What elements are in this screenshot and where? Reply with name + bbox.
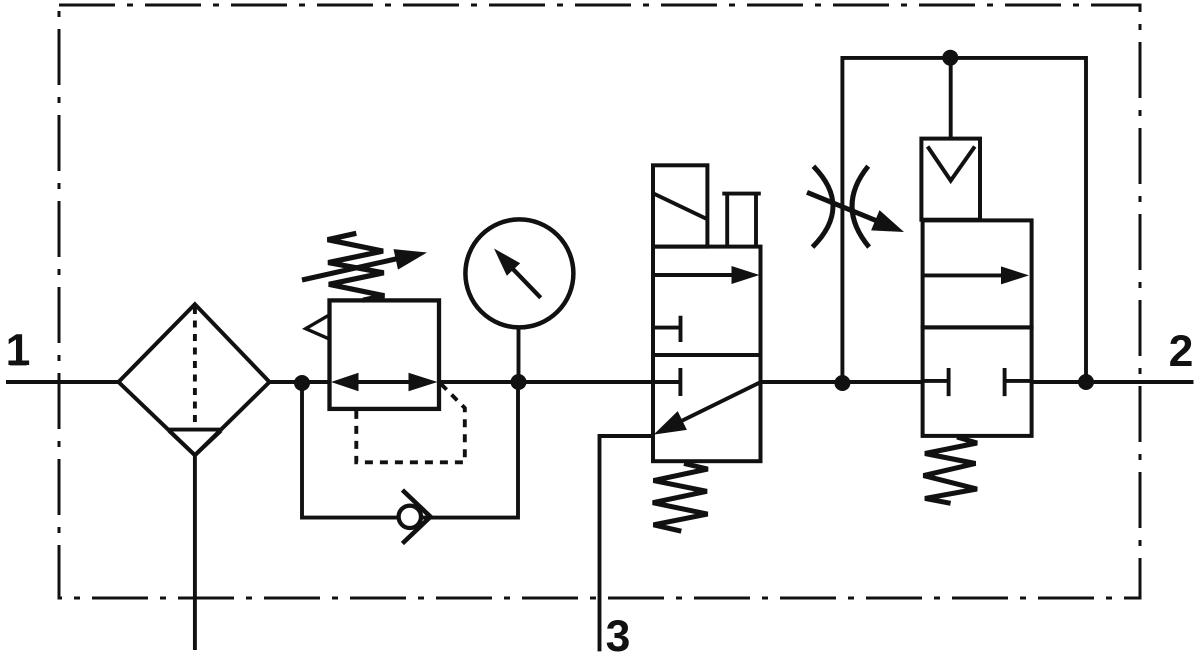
- wire: throttle branch vertical: [842, 58, 1086, 382]
- svg-text:1: 1: [6, 326, 31, 375]
- wire: regulator to valve V2: [439, 380, 653, 384]
- regulator R1 right arrowhead: [409, 373, 438, 392]
- regulator R1 body: [330, 300, 440, 409]
- solenoid coil of V2: [653, 165, 707, 246]
- node: top junction: [942, 50, 958, 66]
- V4 position b closed port left: [923, 368, 949, 396]
- valve V4 body position b: [923, 327, 1032, 436]
- filter F1 diamond: [119, 304, 270, 455]
- arrow: regulator adjustment: [302, 258, 400, 280]
- pilot actuator of V2: [722, 194, 761, 247]
- svg-text:2: 2: [1169, 327, 1194, 376]
- pressure gauge G1 stem: [517, 327, 521, 382]
- V2 position b closed port: [653, 368, 680, 396]
- solenoid valve V2 body position a: [653, 247, 761, 355]
- check valve V1 circle: [399, 506, 421, 528]
- wire: filter drain: [193, 455, 197, 650]
- node: gauge junction: [511, 374, 527, 390]
- V2 position b exhaust path arrow: [673, 382, 761, 425]
- wire: valve V4 to port 2: [1032, 380, 1194, 384]
- node: outlet junction: [1078, 374, 1094, 390]
- throttle valve FC1 arcs: [813, 166, 833, 247]
- regulator R1 left arrowhead: [331, 373, 359, 392]
- wire: top junction to check valve V3: [949, 58, 953, 139]
- wire: filter outlet to regulator: [270, 380, 330, 384]
- node: throttle branch junction: [834, 375, 850, 391]
- wire: V2 exhaust to port 3: [600, 436, 654, 651]
- return spring of V4: [924, 437, 978, 503]
- regulator R1 flow line: [352, 380, 415, 384]
- check valve V3 box: [921, 139, 980, 220]
- pressure gauge G1 dial: [465, 219, 573, 327]
- return spring of V2: [653, 464, 708, 532]
- V4 position a flow arrow: [924, 273, 1005, 277]
- filter F1 dashed element line: [193, 307, 197, 431]
- V2 position a closed port: [653, 316, 680, 342]
- pilot line (dashed) regulator feedback: [356, 384, 465, 462]
- V4 position b closed port right: [1005, 368, 1032, 396]
- throttle valve FC1 adjustment arrow: [807, 192, 880, 222]
- check valve V1 seat: [402, 490, 430, 544]
- svg-text:3: 3: [606, 612, 631, 661]
- spring: regulator adjustment: [328, 233, 385, 300]
- valve V4 body position a: [923, 220, 1032, 327]
- solenoid valve V2 body position b: [653, 355, 761, 461]
- pressure gauge G1 needle: [510, 266, 541, 298]
- check valve V3 poppet: [928, 147, 975, 181]
- wire: valve V2 to valve V4: [761, 380, 923, 384]
- node: regulator inlet junction: [294, 375, 310, 391]
- filter F1 separator line: [168, 428, 223, 432]
- filter F1 separator triangle: [169, 431, 221, 455]
- wire: inlet from port 1: [6, 380, 119, 384]
- V2 position a flow arrow: [655, 273, 735, 277]
- wire: bypass branch left: [302, 382, 518, 518]
- regulator R1 relieving vent symbol: [306, 315, 330, 339]
